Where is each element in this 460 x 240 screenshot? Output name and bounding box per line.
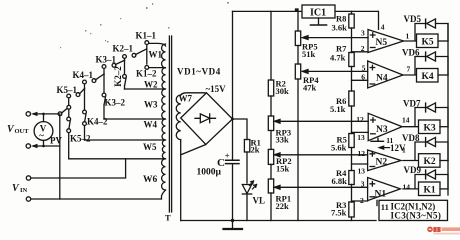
diode VD7 <box>403 103 448 127</box>
svg-text:14: 14 <box>403 183 411 192</box>
svg-text:12: 12 <box>358 149 366 158</box>
svg-text:~15V: ~15V <box>206 84 227 94</box>
svg-text:4: 4 <box>381 22 385 31</box>
relay K5 <box>417 34 449 48</box>
wire tap W5/W6 <box>69 158 165 160</box>
ground main <box>224 221 243 230</box>
svg-text:K1–1: K1–1 <box>136 31 157 41</box>
wire ladder tap to N5 pin2 <box>352 51 369 53</box>
potentiometer RP4 <box>295 64 308 221</box>
svg-text:11: 11 <box>381 202 389 212</box>
wire RP1 wiper to N1 pin3 <box>275 186 368 188</box>
op-amp U IC1 regulator <box>302 5 335 25</box>
capacitor C 1000u <box>226 160 239 163</box>
svg-text:7.5k: 7.5k <box>331 208 347 218</box>
resistor R5 <box>349 134 354 171</box>
resistor R7 <box>349 53 354 92</box>
svg-text:VD1~VD4: VD1~VD4 <box>177 67 221 77</box>
transformer primary W1-W6 <box>162 44 166 190</box>
switch K1-2 <box>145 49 165 69</box>
switch K2-1 <box>123 49 146 60</box>
switch K4-2 <box>83 89 87 141</box>
svg-text:15k: 15k <box>276 164 290 174</box>
wire N5 pin4 <box>378 11 380 29</box>
wire tap W4/W5 <box>85 139 166 141</box>
diode VD6 <box>403 52 448 75</box>
wire ladder tap to N3 pin13 <box>352 131 369 133</box>
op-amp N1 <box>368 178 401 201</box>
svg-text:13: 13 <box>358 166 366 175</box>
wire plus bus vertical <box>232 11 234 220</box>
svg-text:33k: 33k <box>276 134 290 144</box>
relay K4 <box>417 69 449 83</box>
svg-text:VD8: VD8 <box>402 133 420 143</box>
svg-text:K2: K2 <box>424 157 436 167</box>
diode VD9 <box>403 170 448 189</box>
svg-text:K3–1: K3–1 <box>96 55 117 65</box>
svg-text:VD9: VD9 <box>404 165 422 175</box>
svg-text:VD5: VD5 <box>404 14 422 24</box>
node VIN+ terminal <box>26 176 30 180</box>
svg-text:VD7: VD7 <box>403 99 421 109</box>
node VIN- terminal <box>26 197 30 201</box>
transformer secondary W7 <box>176 95 180 140</box>
svg-text:7: 7 <box>407 65 411 74</box>
junction plus corner <box>231 118 234 121</box>
op-amp N3 <box>368 113 402 140</box>
wire W6 bottom <box>162 190 166 199</box>
junction ground <box>231 219 234 222</box>
svg-text:VL: VL <box>253 196 266 206</box>
wire W7 bottom down <box>180 140 182 221</box>
svg-text:N4: N4 <box>376 74 388 84</box>
svg-text:47k: 47k <box>303 82 317 92</box>
wire K1-1 to W1 <box>149 43 166 46</box>
resistor R2 <box>268 80 273 116</box>
potentiometer RP5 <box>295 31 308 64</box>
svg-text:6: 6 <box>361 73 365 82</box>
svg-text:4.7k: 4.7k <box>330 52 346 62</box>
watermark logo <box>427 227 460 235</box>
svg-text:IC3(N3~N5): IC3(N3~N5) <box>391 211 442 221</box>
wire RP2 wiper to N2 pin12 <box>275 154 368 156</box>
wire tap W2/W3 <box>125 88 166 90</box>
resistor R1 <box>233 119 250 183</box>
svg-text:IC1: IC1 <box>310 8 326 19</box>
svg-text:2: 2 <box>360 196 364 205</box>
svg-text:K5–2: K5–2 <box>70 134 91 144</box>
potentiometer RP2 <box>268 149 280 179</box>
wire VIN+ <box>31 159 126 178</box>
wire bottom rail <box>181 220 376 222</box>
svg-text:51k: 51k <box>302 49 316 59</box>
wire common column <box>59 114 61 199</box>
wire ladder tap to N1 pin2 <box>352 200 368 202</box>
op-amp N4 <box>368 61 403 88</box>
ground N3 pin11 <box>371 138 384 141</box>
svg-text:W3: W3 <box>144 100 158 110</box>
bridge rectifier VD1~VD4 <box>181 93 233 145</box>
wire ladder tap to N4 pin6 <box>352 79 368 81</box>
wire bridge minus diagonal <box>182 145 206 155</box>
svg-text:PV: PV <box>50 136 62 146</box>
svg-text:OUT: OUT <box>15 128 30 135</box>
svg-text:5.1k: 5.1k <box>330 104 346 114</box>
svg-text:K5: K5 <box>422 38 434 48</box>
svg-text:2k: 2k <box>251 145 260 155</box>
svg-text:5.6k: 5.6k <box>331 143 347 153</box>
resistor R6 <box>349 91 354 134</box>
resistor R3 <box>349 202 354 221</box>
relay K3 <box>419 120 449 134</box>
svg-text:T: T <box>165 213 171 223</box>
resistor R8 <box>349 11 354 52</box>
op-amp N5 <box>368 30 404 53</box>
svg-text:VD6: VD6 <box>402 48 420 58</box>
svg-text:12: 12 <box>356 115 364 124</box>
svg-text:3: 3 <box>361 29 365 38</box>
wire relay rail <box>447 24 449 196</box>
svg-text:+: + <box>225 151 230 161</box>
svg-text:W7: W7 <box>179 94 193 104</box>
svg-text:3.6k: 3.6k <box>332 23 348 33</box>
wire RP4 wiper to N4 pin5 <box>303 70 368 72</box>
svg-text:13: 13 <box>357 133 365 142</box>
svg-text:N2: N2 <box>376 158 388 168</box>
potentiometer RP3 <box>268 116 280 149</box>
wire RP3 wiper to N3 pin12 <box>275 120 369 122</box>
svg-text:K5–1: K5–1 <box>57 85 78 95</box>
svg-text:30k: 30k <box>276 86 290 96</box>
svg-text:K2–2: K2–2 <box>113 66 123 87</box>
junction meter bottom <box>42 145 45 148</box>
switch K3-2 <box>102 74 106 119</box>
svg-text:K4: K4 <box>422 72 434 82</box>
svg-text:K2–1: K2–1 <box>113 44 134 54</box>
switch S6 (tap selector bottom) <box>58 105 71 115</box>
relay K2 <box>419 154 449 168</box>
svg-text:W5: W5 <box>143 142 157 152</box>
svg-text:14: 14 <box>402 115 410 124</box>
potentiometer RP1 <box>268 179 280 221</box>
svg-text:K4–1: K4–1 <box>73 70 94 80</box>
wire ladder tap to N2 pin13 <box>352 163 368 165</box>
svg-text:1000µ: 1000µ <box>197 168 222 178</box>
junction meter top <box>42 113 45 116</box>
svg-text:2: 2 <box>361 44 365 53</box>
voltmeter PV <box>34 114 53 146</box>
resistor R4 <box>349 171 354 203</box>
switch K3-1 <box>102 60 124 74</box>
wire chain B top <box>297 11 299 31</box>
LED VL <box>242 181 256 221</box>
svg-text:~: ~ <box>39 131 44 141</box>
wire chain A top <box>270 11 272 80</box>
wire W7 top <box>181 93 205 95</box>
scan speckles <box>60 2 229 48</box>
wire RP5 wiper to N5 pin3 <box>303 37 369 39</box>
node VOUT- terminal <box>26 144 60 148</box>
svg-text:N5: N5 <box>376 38 388 48</box>
svg-text:1: 1 <box>406 32 410 41</box>
svg-text:K1–2: K1–2 <box>136 68 157 78</box>
svg-text:K3–2: K3–2 <box>105 98 126 108</box>
IC designator box <box>379 200 448 220</box>
svg-text:5: 5 <box>362 64 366 73</box>
svg-text:3: 3 <box>361 180 365 189</box>
svg-text:N1: N1 <box>375 190 387 200</box>
switch K5-1 <box>67 89 85 105</box>
switch K1-1 <box>145 41 149 50</box>
switch K2-2 <box>123 60 127 89</box>
wire top supply <box>233 10 379 12</box>
transformer core <box>169 36 171 212</box>
op-amp N2 <box>368 150 401 171</box>
svg-text:22k: 22k <box>276 201 290 211</box>
wire VIN- <box>31 198 161 200</box>
svg-text:K1: K1 <box>424 186 436 196</box>
arrow 12V supply <box>383 147 390 149</box>
svg-text:6.8k: 6.8k <box>332 176 348 186</box>
relay K1 <box>419 182 449 196</box>
svg-text:N3: N3 <box>376 125 388 135</box>
diode VD8 <box>403 137 448 160</box>
svg-text:K4–2: K4–2 <box>87 117 108 127</box>
ground N1 pin11 <box>376 200 378 205</box>
svg-text:W1: W1 <box>149 49 163 59</box>
switch K5-2 <box>67 109 71 159</box>
wire tap W3/W4 <box>104 118 165 120</box>
svg-text:K3: K3 <box>424 124 436 134</box>
svg-text:W6: W6 <box>143 175 158 185</box>
switch K4-1 <box>83 74 104 89</box>
svg-text:IN: IN <box>20 187 28 194</box>
svg-text:W4: W4 <box>144 120 158 130</box>
scan artifact dash <box>296 9 299 11</box>
node VOUT+ terminal <box>26 112 58 116</box>
svg-text:12V: 12V <box>390 143 406 153</box>
svg-text:W2: W2 <box>144 80 158 90</box>
diode VD5 <box>403 19 448 41</box>
